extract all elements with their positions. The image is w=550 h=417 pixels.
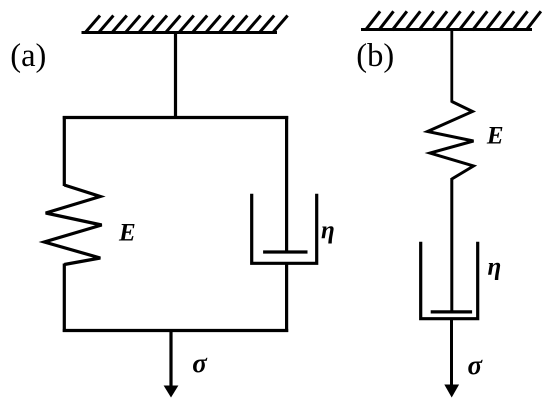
bottom bar (a): [63, 329, 288, 332]
dashpot piston (b): [431, 310, 472, 313]
fixed support (a): [82, 16, 288, 33]
left branch upper wire (a): [63, 116, 66, 186]
svg-text:σ: σ: [468, 350, 484, 380]
stress arrow (a): [164, 331, 179, 398]
svg-text:(b): (b): [356, 38, 394, 74]
svg-text:(a): (a): [10, 38, 46, 74]
rod from support (a): [174, 33, 177, 120]
top bar (a): [63, 116, 288, 119]
svg-text:η: η: [321, 217, 335, 244]
stress arrow (b): [444, 385, 459, 398]
rod below dashpot (a): [285, 263, 288, 332]
dashpot cup (b): [421, 242, 478, 319]
svg-text:η: η: [488, 253, 502, 280]
right branch rod (a): [285, 116, 288, 252]
left branch lower wire (a): [63, 264, 66, 333]
rod to dashpot (b): [450, 178, 453, 312]
spring E (a): [44, 185, 101, 265]
fixed support (b): [361, 11, 541, 30]
rod below dashpot (b): [450, 319, 453, 386]
dashpot piston (a): [263, 250, 307, 253]
svg-text:σ: σ: [192, 348, 208, 378]
svg-text:E: E: [118, 219, 136, 246]
spring E (b): [428, 102, 474, 180]
svg-text:E: E: [486, 122, 504, 149]
dashpot cup (a): [252, 194, 317, 263]
rod from support (b): [450, 30, 453, 103]
